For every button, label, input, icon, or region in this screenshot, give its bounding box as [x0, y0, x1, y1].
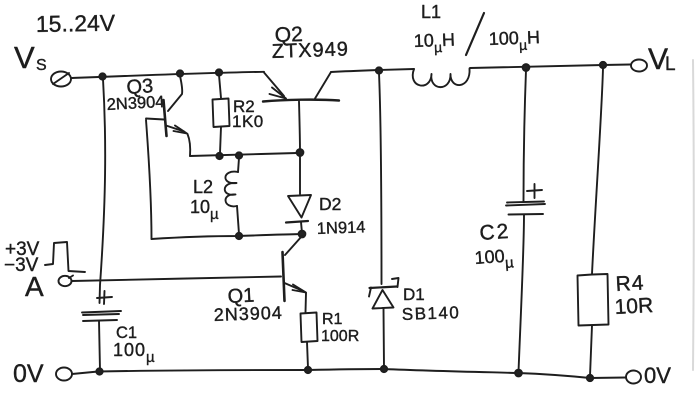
svg-text:100µ: 100µ [113, 340, 156, 366]
resistor R1 body [301, 313, 318, 343]
resistor R2 bottom wire [220, 127, 221, 153]
svg-text:100µH: 100µH [488, 27, 540, 54]
svg-text:D1: D1 [403, 285, 425, 304]
resistor R2 top wire [219, 75, 221, 98]
diode D2 anode wire [299, 155, 301, 194]
svg-text:15..24V: 15..24V [36, 10, 116, 37]
diode D2 triangle [288, 195, 311, 218]
transistor Q2 base wire down [299, 102, 300, 153]
svg-text:0V: 0V [644, 363, 671, 388]
wire L1 to VL [470, 65, 630, 69]
inductor L1 coil [413, 69, 470, 88]
capacitor C1 bottom plate [83, 320, 117, 321]
transistor Q3 base wire [146, 119, 164, 120]
junction C2 bottom [515, 370, 522, 377]
svg-text:2N3904: 2N3904 [213, 303, 283, 325]
junction R2 tap [216, 69, 222, 75]
svg-text:L1: L1 [421, 2, 441, 22]
svg-text:10µ: 10µ [190, 197, 219, 223]
transistor Q1 bar [283, 252, 285, 301]
transistor Q1 collector wire [285, 236, 302, 255]
junction D1 tap [376, 67, 382, 73]
svg-text:ZTX949: ZTX949 [271, 38, 349, 63]
wire lower loop horizontal to Q1 collector node [152, 234, 303, 239]
svg-text:V: V [14, 40, 35, 75]
svg-text:L: L [665, 54, 676, 75]
junction C1 bottom [96, 368, 102, 374]
junction Q3 collector tap [177, 70, 183, 76]
wire Vs to Q2 emitter (top rail left) [71, 72, 264, 78]
diode D1 anode wire [383, 308, 386, 368]
diode D2 bottom wire [301, 222, 302, 233]
svg-text:1K0: 1K0 [232, 112, 264, 131]
junction Q2 base / D2 anode [297, 149, 304, 156]
svg-text:100R: 100R [321, 328, 359, 345]
inductor L2 top wire [238, 158, 239, 172]
terminal 0V left [56, 368, 72, 381]
transistor Q3 emitter with arrow [166, 126, 184, 132]
capacitor C1 top wire from Vs rail [100, 79, 106, 303]
terminal VL [631, 60, 647, 72]
resistor R4 bottom wire [590, 326, 592, 377]
svg-text:2N3904: 2N3904 [106, 93, 165, 114]
transistor Q1 emitter with arrow [285, 283, 304, 291]
terminal Vs [51, 72, 71, 87]
wire bottom rail [72, 369, 626, 378]
transistor Q3 collector wire [168, 76, 182, 111]
junction D1 anode [381, 366, 387, 372]
svg-text:C2: C2 [479, 220, 511, 245]
svg-text:D2: D2 [319, 194, 341, 214]
wire Q3 emitter node to Q2 base node (y156) [190, 153, 297, 156]
junction R4 bottom [587, 375, 593, 381]
svg-text:S: S [36, 57, 47, 74]
transistor Q2 collector wire to output rail [315, 72, 331, 99]
junction L2 bottom [236, 233, 242, 239]
capacitor C2 polarity plus [527, 184, 542, 198]
transistor Q3 bar [164, 100, 167, 136]
junction R1 bottom [305, 367, 311, 373]
capacitor C2 top plate [506, 202, 545, 206]
junction R4 tap [600, 62, 606, 68]
terminal A [59, 276, 72, 286]
terminal 0V right [626, 371, 641, 384]
junction C2 tap [523, 64, 530, 71]
diode D2 cathode bar [286, 221, 308, 223]
svg-text:A: A [25, 271, 44, 302]
wire A to Q1 base [72, 277, 281, 282]
resistor R4 top wire [592, 68, 603, 274]
svg-text:L2: L2 [193, 177, 213, 197]
resistor R2 body [213, 99, 230, 128]
scan edge artifact [692, 60, 695, 370]
junction C1 tap [99, 73, 105, 79]
svg-text:1N914: 1N914 [317, 218, 366, 238]
svg-text:R1: R1 [322, 311, 343, 328]
junction R2 bottom [216, 153, 222, 159]
svg-text:SB140: SB140 [401, 303, 460, 324]
inductor L2 bottom wire [237, 206, 239, 234]
capacitor C1 bottom wire [99, 321, 100, 370]
capacitor C2 bottom wire [519, 215, 525, 373]
input square wave symbol [45, 242, 85, 272]
svg-text:100µ: 100µ [474, 245, 515, 274]
resistor R4 body [578, 274, 609, 326]
transistor Q2 emitter wire with arrow (from Vs rail) [264, 73, 284, 97]
capacitor C2 bottom plate [509, 213, 544, 216]
transistor Q2 bar (base bar) [263, 100, 339, 102]
junction D2 cathode / Q1 collector [299, 231, 306, 238]
diode D1 cathode wire from switch node [379, 73, 382, 284]
wire Q3 base down left side [146, 120, 152, 239]
svg-text:R4: R4 [615, 272, 645, 296]
svg-text:10µH: 10µH [413, 30, 455, 56]
inductor L2 coil [225, 172, 238, 207]
capacitor C2 top wire [524, 70, 527, 201]
capacitor C1 polarity plus [97, 291, 112, 304]
svg-text:0V: 0V [13, 360, 44, 388]
wire Q2 collector to L1 [331, 69, 414, 72]
diode D1 triangle [373, 290, 394, 309]
junction L2 top [236, 152, 242, 158]
resistor R1 bottom wire [307, 342, 308, 368]
capacitor C1 top plate [82, 311, 121, 315]
svg-text:10R: 10R [614, 294, 654, 319]
diode D1 schottky cathode bar [370, 287, 398, 289]
